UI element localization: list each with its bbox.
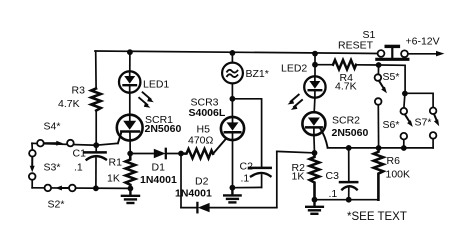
LED LED2: [304, 76, 325, 97]
wire SCR1 cathode down: [129, 140, 131, 153]
wire SCR1 node to D1: [130, 153, 154, 155]
SCR U SCR2: [302, 112, 327, 147]
capacitor C2: [232, 168, 270, 188]
node R2 top junction: [312, 150, 318, 156]
diode D1: [154, 149, 181, 158]
ground below R1: [122, 188, 139, 203]
svg-text:1N4001: 1N4001: [140, 174, 177, 186]
resistor R2: [310, 153, 320, 200]
switch S6: [401, 94, 413, 149]
node R1 bottom junction: [127, 186, 133, 192]
node R4-S5 junction: [376, 62, 382, 68]
wire D2 row left: [181, 207, 197, 209]
wire left column bottom: [31, 180, 33, 188]
svg-text:100K: 100K: [386, 169, 411, 181]
svg-text:R3: R3: [72, 85, 86, 97]
node R2 bottom junction: [312, 197, 318, 203]
capacitor C3: [340, 182, 357, 200]
ground below R2: [306, 200, 323, 214]
capacitor C1: [85, 145, 106, 188]
wire switch bottom row: [32, 187, 130, 190]
node top row to R3-C1 junction: [93, 142, 99, 148]
node supply arrow head: [436, 51, 444, 57]
wire top supply rail left segment: [95, 51, 377, 54]
svg-text:LED2: LED2: [281, 63, 307, 75]
wire SCR2 cathode down: [313, 135, 316, 153]
svg-text:4.7K: 4.7K: [335, 81, 357, 93]
svg-text:S6*: S6*: [383, 119, 400, 131]
SCR U SCR1: [117, 115, 143, 144]
resistor R1: [126, 154, 136, 189]
node D1-H5-D2 junction: [178, 151, 184, 157]
node S6 bottom junction: [401, 145, 407, 151]
wire R4 to S5 node: [356, 64, 379, 66]
svg-text:1K: 1K: [107, 173, 120, 185]
svg-text:S3*: S3*: [44, 162, 61, 174]
ground below SCR3: [224, 188, 240, 203]
wire SCR3 cathode down: [232, 140, 234, 188]
pushbutton S1: [377, 46, 408, 59]
svg-text:S4*: S4*: [44, 121, 61, 133]
node rail-LED1 junction: [127, 49, 133, 55]
svg-text:S2*: S2*: [48, 199, 65, 211]
svg-text:SCR2: SCR2: [332, 115, 360, 127]
node LED2-R4 junction: [312, 62, 318, 68]
svg-text:.1: .1: [74, 162, 83, 174]
wire R3 bottom to node A: [95, 111, 97, 146]
SCR U SCR3: [221, 117, 244, 141]
resistor H5 470ohm: [181, 149, 213, 158]
svg-text:+6-12V: +6-12V: [406, 36, 440, 48]
wire LED2 branch from rail: [314, 54, 316, 77]
wire R3 branch vertical from rail: [95, 51, 97, 88]
resistor R3: [91, 89, 101, 111]
svg-text:4.7K: 4.7K: [58, 98, 80, 110]
svg-text:C1: C1: [73, 148, 87, 160]
switch S3: [29, 150, 36, 180]
svg-text:R1: R1: [109, 157, 123, 169]
node C1 bottom junction: [93, 185, 99, 191]
wire H5 to SCR3 gate: [213, 139, 226, 154]
svg-text:BZ1*: BZ1*: [246, 68, 269, 80]
svg-text:C3: C3: [326, 170, 340, 182]
LED LED1: [119, 71, 140, 92]
node BZ1-C2 branch junction: [230, 96, 236, 102]
diode D2: [197, 203, 276, 212]
LED2 light arrows: [288, 95, 303, 110]
svg-text:S7*: S7*: [415, 117, 432, 129]
wire D2 branch vertical: [180, 154, 182, 208]
node SCR1 cathode junction: [127, 151, 133, 157]
svg-text:S4006L: S4006L: [189, 107, 226, 119]
wire D2 loop up: [276, 151, 278, 207]
buzzer BZ1: [222, 63, 243, 84]
node C3 bottom junction: [346, 197, 352, 203]
svg-text:2N5060: 2N5060: [145, 123, 182, 135]
wire LED1 to SCR1: [129, 93, 131, 115]
svg-text:1N4001: 1N4001: [175, 188, 212, 200]
wire D2 loop to R2 top: [277, 151, 315, 153]
wire LED1 branch from rail: [129, 52, 131, 71]
wire R4 row: [315, 64, 333, 66]
node R6-S5 junction: [376, 145, 382, 151]
node rail-BZ1 junction: [230, 50, 236, 56]
wire C3 top lead: [348, 148, 350, 181]
LED1 light arrows: [139, 92, 154, 107]
svg-text:S5*: S5*: [383, 71, 400, 83]
node SCR3 cathode ground junction: [230, 185, 236, 191]
svg-text:.1: .1: [329, 188, 338, 200]
svg-text:R6: R6: [387, 155, 401, 167]
wire top supply rail right segment with arrow: [408, 53, 438, 55]
wire switch top row: [32, 143, 96, 145]
svg-text:470Ω: 470Ω: [188, 135, 214, 147]
svg-text:C2: C2: [240, 161, 254, 173]
switch S5: [375, 65, 387, 148]
svg-text:2N5060: 2N5060: [332, 127, 369, 139]
wire S5 node to S6S7 drop: [379, 65, 406, 94]
wire BZ1 to SCR3: [231, 83, 233, 116]
wire LED2 to SCR2: [313, 98, 316, 113]
node S6-S7 split junction: [402, 91, 408, 97]
wire SCR2 gate row: [328, 147, 434, 149]
wire branch to C2 top: [232, 99, 261, 167]
wire left column top: [31, 143, 33, 150]
wire BZ1 branch from rail: [231, 53, 233, 63]
svg-text:*SEE TEXT: *SEE TEXT: [347, 211, 407, 223]
wire node to SCR1 gate: [96, 143, 118, 145]
svg-text:D1: D1: [152, 162, 166, 174]
node rail-LED2 junction: [312, 51, 318, 57]
svg-text:.1: .1: [241, 173, 250, 185]
svg-text:D2: D2: [195, 176, 209, 188]
resistor R4: [333, 60, 356, 69]
svg-text:1K: 1K: [292, 171, 305, 183]
switch S4: [37, 140, 74, 147]
switch S7: [405, 93, 439, 148]
switch S2: [45, 185, 76, 192]
wire bottom ground row: [315, 199, 379, 201]
resistor R6: [374, 148, 384, 200]
svg-text:LED1: LED1: [143, 79, 169, 91]
node C3 top junction: [346, 145, 352, 151]
svg-text:RESET: RESET: [338, 40, 374, 52]
